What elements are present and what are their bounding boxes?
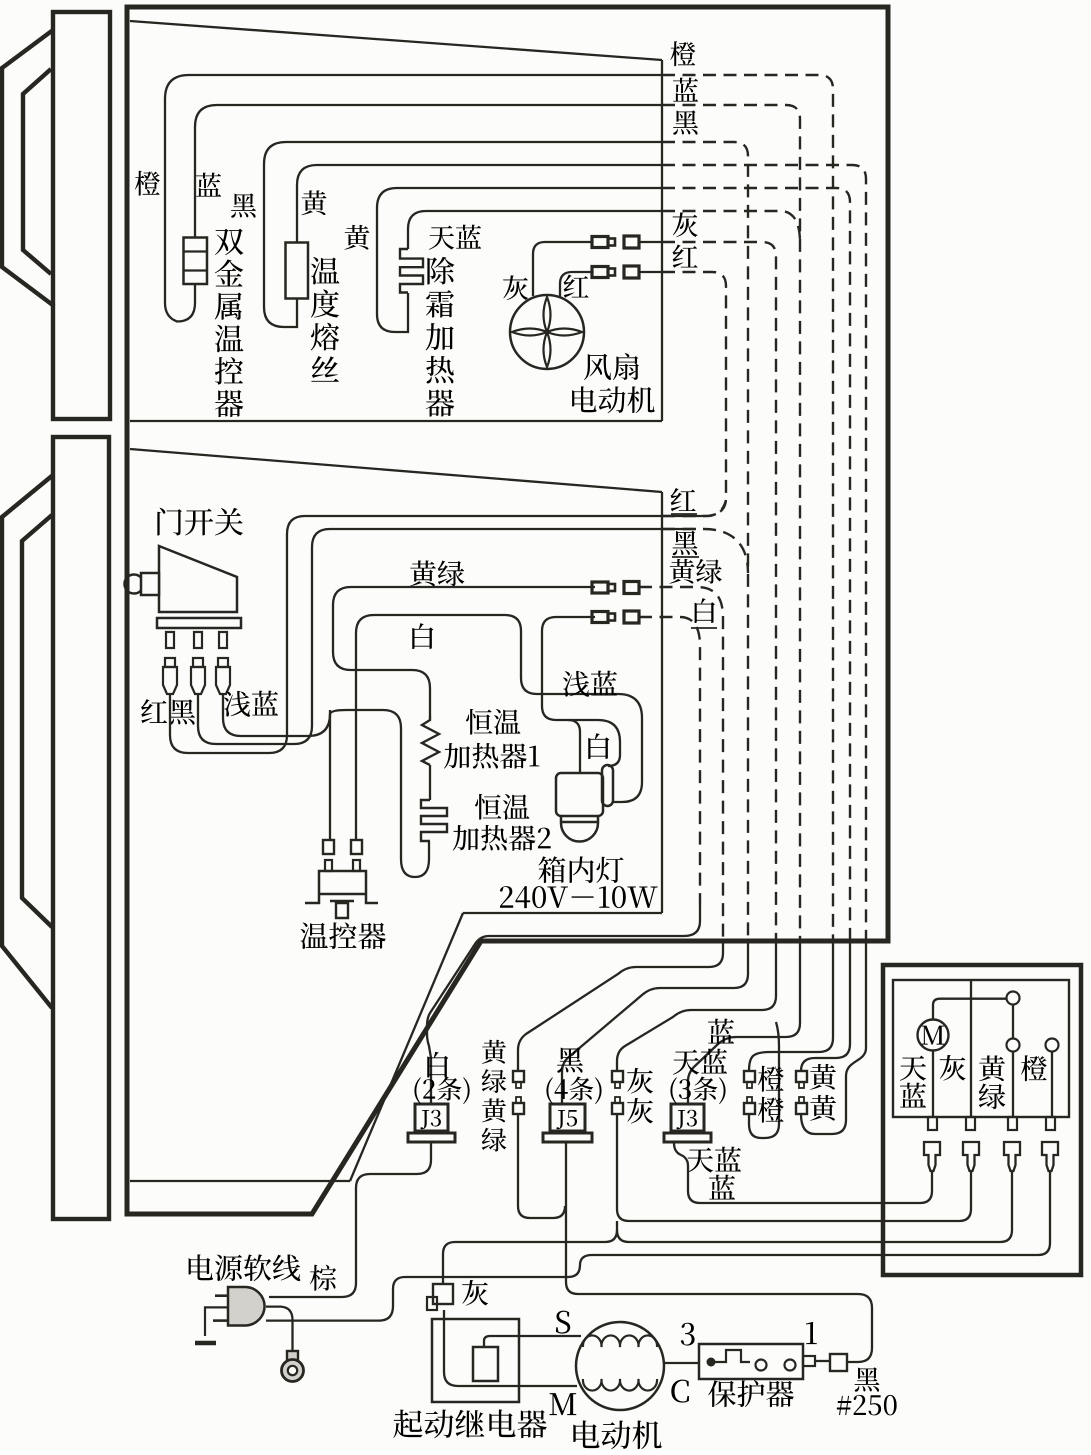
thermostat capillary mount	[330, 901, 354, 918]
defrost heater element	[400, 249, 423, 293]
label blue left	[196, 173, 221, 197]
label door switch	[157, 508, 181, 536]
wire gray T to plug3	[617, 1171, 1012, 1242]
box pin 4	[1046, 1117, 1055, 1130]
door switch pin 2	[194, 632, 202, 648]
label yellow 1	[301, 190, 326, 215]
wire fan-gray dashed	[662, 242, 776, 941]
wire yellowgreen exit	[639, 587, 723, 941]
wire yellowgreen loop	[333, 587, 595, 716]
box plug 2	[963, 1142, 979, 1171]
label yellowgreen fridge	[669, 559, 694, 584]
door switch terminal 3	[218, 658, 228, 667]
square pair yellow	[796, 1071, 807, 1082]
label lightblue terminal	[224, 691, 250, 717]
label heater1	[466, 709, 492, 735]
relay coil	[473, 1347, 498, 1381]
fridge door swing outline	[2, 475, 53, 1008]
label red right	[673, 245, 698, 268]
label white 2pcs	[427, 1052, 448, 1078]
wire blue loop (bimetal top to right exit)	[195, 105, 662, 238]
wire fan-red dashed	[662, 272, 726, 516]
label start relay	[393, 1409, 422, 1438]
wire yellowgreen bottom merge	[518, 1114, 565, 1218]
thermostat cap 1	[323, 840, 334, 854]
connector J3a base	[408, 1133, 455, 1142]
wire skyblue loop (defrost heater top)	[408, 211, 662, 249]
wire J3b base bus to plug1	[674, 1143, 920, 1203]
connector pair red (female)	[624, 266, 639, 278]
ring terminal	[287, 1351, 298, 1362]
connector J3b base	[664, 1133, 711, 1142]
wire yellow2 cascade U	[801, 941, 866, 1134]
label yellow yellow	[810, 1064, 836, 1090]
label white loop	[412, 623, 433, 649]
refrigerator cabinet outline	[127, 7, 888, 1214]
box wire c1-c2	[1012, 1004, 1014, 1039]
connector pair gray (male)	[592, 237, 608, 248]
fridge door gasket frame	[22, 515, 52, 927]
wire orange loop (bimetal bottom to right exit)	[165, 75, 662, 322]
label relay gray	[462, 1280, 488, 1306]
fridge liner right edge	[661, 492, 663, 913]
bimetal thermostat body	[184, 238, 208, 285]
label power cord	[189, 1254, 213, 1280]
fan motor circle	[510, 295, 584, 369]
wire red fridge exit	[662, 500, 726, 516]
box plug 4	[1042, 1142, 1058, 1171]
label fan gray	[503, 275, 528, 300]
box labels	[900, 1056, 926, 1081]
fridge liner recess top	[463, 912, 662, 914]
label black 4pcs	[557, 1047, 583, 1072]
wire gray cascade	[617, 941, 776, 1071]
power plug prong 1	[215, 1294, 228, 1297]
label yellowgreen column	[482, 1040, 506, 1064]
ring terminal wire	[266, 1307, 293, 1351]
connector J3b box	[671, 1104, 704, 1131]
connector pair wh (male)	[592, 612, 608, 623]
label lightblue lamp	[563, 671, 589, 697]
wire blue dashed	[662, 105, 800, 941]
box divider	[970, 980, 972, 1117]
connector pair wh (female)	[624, 611, 639, 623]
door switch base bar	[157, 618, 241, 628]
label red black terminals	[141, 699, 167, 723]
connector 250 square	[830, 1354, 847, 1371]
wire blue cascade to J3b	[688, 941, 800, 1104]
door switch body	[159, 546, 237, 612]
label black 250	[855, 1367, 880, 1391]
label skyblue blue below	[687, 1148, 713, 1173]
ground wire	[205, 1307, 228, 1336]
connector pair gray (female)	[624, 236, 639, 248]
wire black from switch	[198, 529, 662, 744]
box wire col1	[932, 1051, 934, 1118]
label fan motor	[584, 354, 611, 380]
power plug prong 2	[213, 1319, 228, 1322]
wire skyblue dashed	[662, 211, 800, 243]
connector pair yg (male)	[592, 582, 608, 593]
thermostat cap 2	[351, 840, 362, 854]
connector J3a box	[415, 1104, 448, 1131]
wire black loop (fuse bottom to right exit)	[264, 142, 662, 327]
label black fridge	[673, 531, 698, 555]
thermal fuse body	[286, 243, 309, 299]
protector element	[715, 1350, 750, 1362]
fridge liner bottom edge	[130, 1180, 350, 1182]
label white fridge	[695, 598, 715, 623]
wire J5 base down to protector	[566, 1142, 872, 1362]
label 3	[681, 1323, 695, 1346]
wire orange cascade	[749, 941, 833, 1071]
thermostat pin 1	[325, 860, 332, 871]
freezer liner top edge	[130, 21, 662, 60]
ground symbol	[195, 1341, 216, 1346]
wire white exit	[639, 617, 700, 905]
wire black cascade to J5	[562, 941, 748, 1104]
wire thermostat left lead	[329, 710, 331, 840]
wire gray bus to plug2	[617, 1114, 971, 1221]
wire motor C to protector	[664, 1362, 699, 1364]
label yellowgreen loop	[410, 560, 436, 586]
power plug body	[228, 1287, 265, 1326]
protector box	[699, 1344, 803, 1379]
wire gray to liner	[639, 241, 662, 243]
square pair yellowgreen	[513, 1071, 524, 1082]
relay box	[432, 1319, 519, 1402]
box wire col3	[1012, 1053, 1014, 1118]
door switch pin 3	[219, 632, 227, 648]
label bimetal thermostat	[215, 229, 243, 256]
protector contact dot	[707, 1358, 716, 1367]
box pin 3	[1008, 1117, 1017, 1130]
label black right	[673, 110, 698, 134]
wire pair2-left to lamp	[542, 617, 620, 766]
wire white to J3a	[427, 905, 700, 1104]
heater2 element	[421, 800, 447, 841]
label black left	[231, 193, 256, 217]
door switch plunger	[125, 575, 144, 594]
box wire col4	[1051, 1053, 1053, 1118]
wire yellowgreen cascade	[518, 941, 723, 1071]
box M motor circle	[918, 1020, 949, 1051]
wire black fridge exit	[662, 529, 748, 573]
wire red from switch	[170, 516, 662, 753]
fridge liner top edge	[130, 449, 662, 492]
thermostat body	[305, 871, 378, 903]
wire black solid stub	[662, 528, 696, 530]
wire yellow1 dashed	[662, 165, 866, 941]
terminal box outer	[883, 965, 1081, 1275]
protector tab	[803, 1356, 815, 1366]
wire red solid stub	[662, 515, 706, 517]
wire heater1-heater2	[429, 765, 431, 800]
lamp clip	[602, 765, 613, 806]
door switch terminal 1	[165, 658, 175, 667]
lamp bulb	[561, 816, 598, 842]
box plug 1	[924, 1142, 940, 1171]
relay wire out top	[484, 1336, 581, 1347]
thermostat pin 2	[353, 860, 360, 871]
motor circle	[576, 1322, 664, 1410]
wire protector to 250	[815, 1360, 830, 1362]
wire thermostat right lead white	[356, 615, 642, 840]
label fan red	[564, 275, 589, 298]
fridge door front panel	[53, 437, 109, 1219]
connector pair red (male)	[592, 267, 608, 278]
wire gray bottom to relay	[443, 1221, 617, 1283]
wire red to liner	[639, 271, 662, 273]
label red fridge	[671, 488, 696, 511]
label protector	[708, 1380, 736, 1407]
label motor	[573, 1420, 599, 1448]
heater1 zigzag element	[422, 716, 439, 765]
square pair orange	[744, 1071, 755, 1082]
box pin 1	[928, 1117, 937, 1130]
freezer door swing outline	[2, 30, 54, 306]
label S terminal	[556, 1311, 570, 1334]
wire yellow cascade	[801, 941, 850, 1071]
label orange orange	[758, 1066, 784, 1092]
label C terminal	[671, 1380, 689, 1403]
wire yellow2 dashed	[662, 188, 850, 941]
wire lightblue from switch	[223, 695, 429, 877]
wire J3a base to plug	[269, 1142, 431, 1297]
box terminal circle 2	[1007, 1039, 1020, 1052]
fridge liner recess diagonal	[350, 913, 463, 1181]
box terminal circle 3	[1046, 1039, 1059, 1052]
box terminal circle 1	[1007, 992, 1020, 1005]
wire fan gray lead	[533, 242, 591, 296]
label thermostat	[301, 922, 328, 949]
relay wire in to M	[444, 1310, 577, 1386]
fan blades	[512, 297, 582, 367]
label skyblue 3pcs	[708, 1019, 734, 1044]
label 1	[806, 1322, 817, 1344]
door switch terminal 2	[193, 658, 203, 667]
connector J5 box	[550, 1104, 585, 1131]
terminal box inner	[893, 980, 1069, 1117]
wire yellow loop 1 (fuse top)	[297, 165, 662, 243]
label defrost heater	[427, 257, 454, 285]
label skyblue	[429, 226, 454, 250]
freezer liner right edge	[661, 60, 663, 421]
door switch pin 1	[166, 632, 174, 648]
freezer liner bottom edge	[130, 420, 662, 422]
connector pair yg (female)	[624, 582, 639, 594]
wire plug neutral to box plug4	[266, 1171, 1050, 1321]
wire orange dashed	[662, 75, 833, 941]
label yellow 2	[344, 225, 369, 250]
protector circle 2	[785, 1360, 796, 1371]
wire fan red lead	[560, 272, 591, 297]
label orange left	[135, 171, 160, 196]
label gray right	[673, 212, 698, 237]
freezer door gasket frame	[23, 69, 51, 274]
relay gray connector	[433, 1284, 453, 1304]
wire orange lower U	[749, 1022, 779, 1138]
label thermal fuse	[311, 257, 339, 284]
square pair gray	[612, 1071, 623, 1082]
wire yellow loop 2 (defrost heater bottom)	[377, 188, 662, 332]
label white lamp	[588, 733, 609, 759]
label lamp	[538, 856, 565, 883]
label M terminal	[550, 1393, 577, 1415]
lamp holder	[556, 773, 603, 816]
label orange right	[670, 41, 695, 66]
motor windings	[583, 1335, 657, 1347]
label heater2	[475, 794, 501, 820]
label gray gray	[627, 1068, 653, 1094]
connector J5 base	[543, 1133, 592, 1142]
protector circle 1	[756, 1360, 767, 1371]
wire lamp white lead	[568, 720, 580, 773]
freezer door front panel	[53, 12, 110, 419]
box wire M top	[933, 999, 1006, 1020]
label blue right	[673, 78, 698, 102]
box pin 2	[966, 1117, 975, 1130]
wire black dashed	[662, 142, 748, 941]
box plug 3	[1004, 1142, 1020, 1171]
